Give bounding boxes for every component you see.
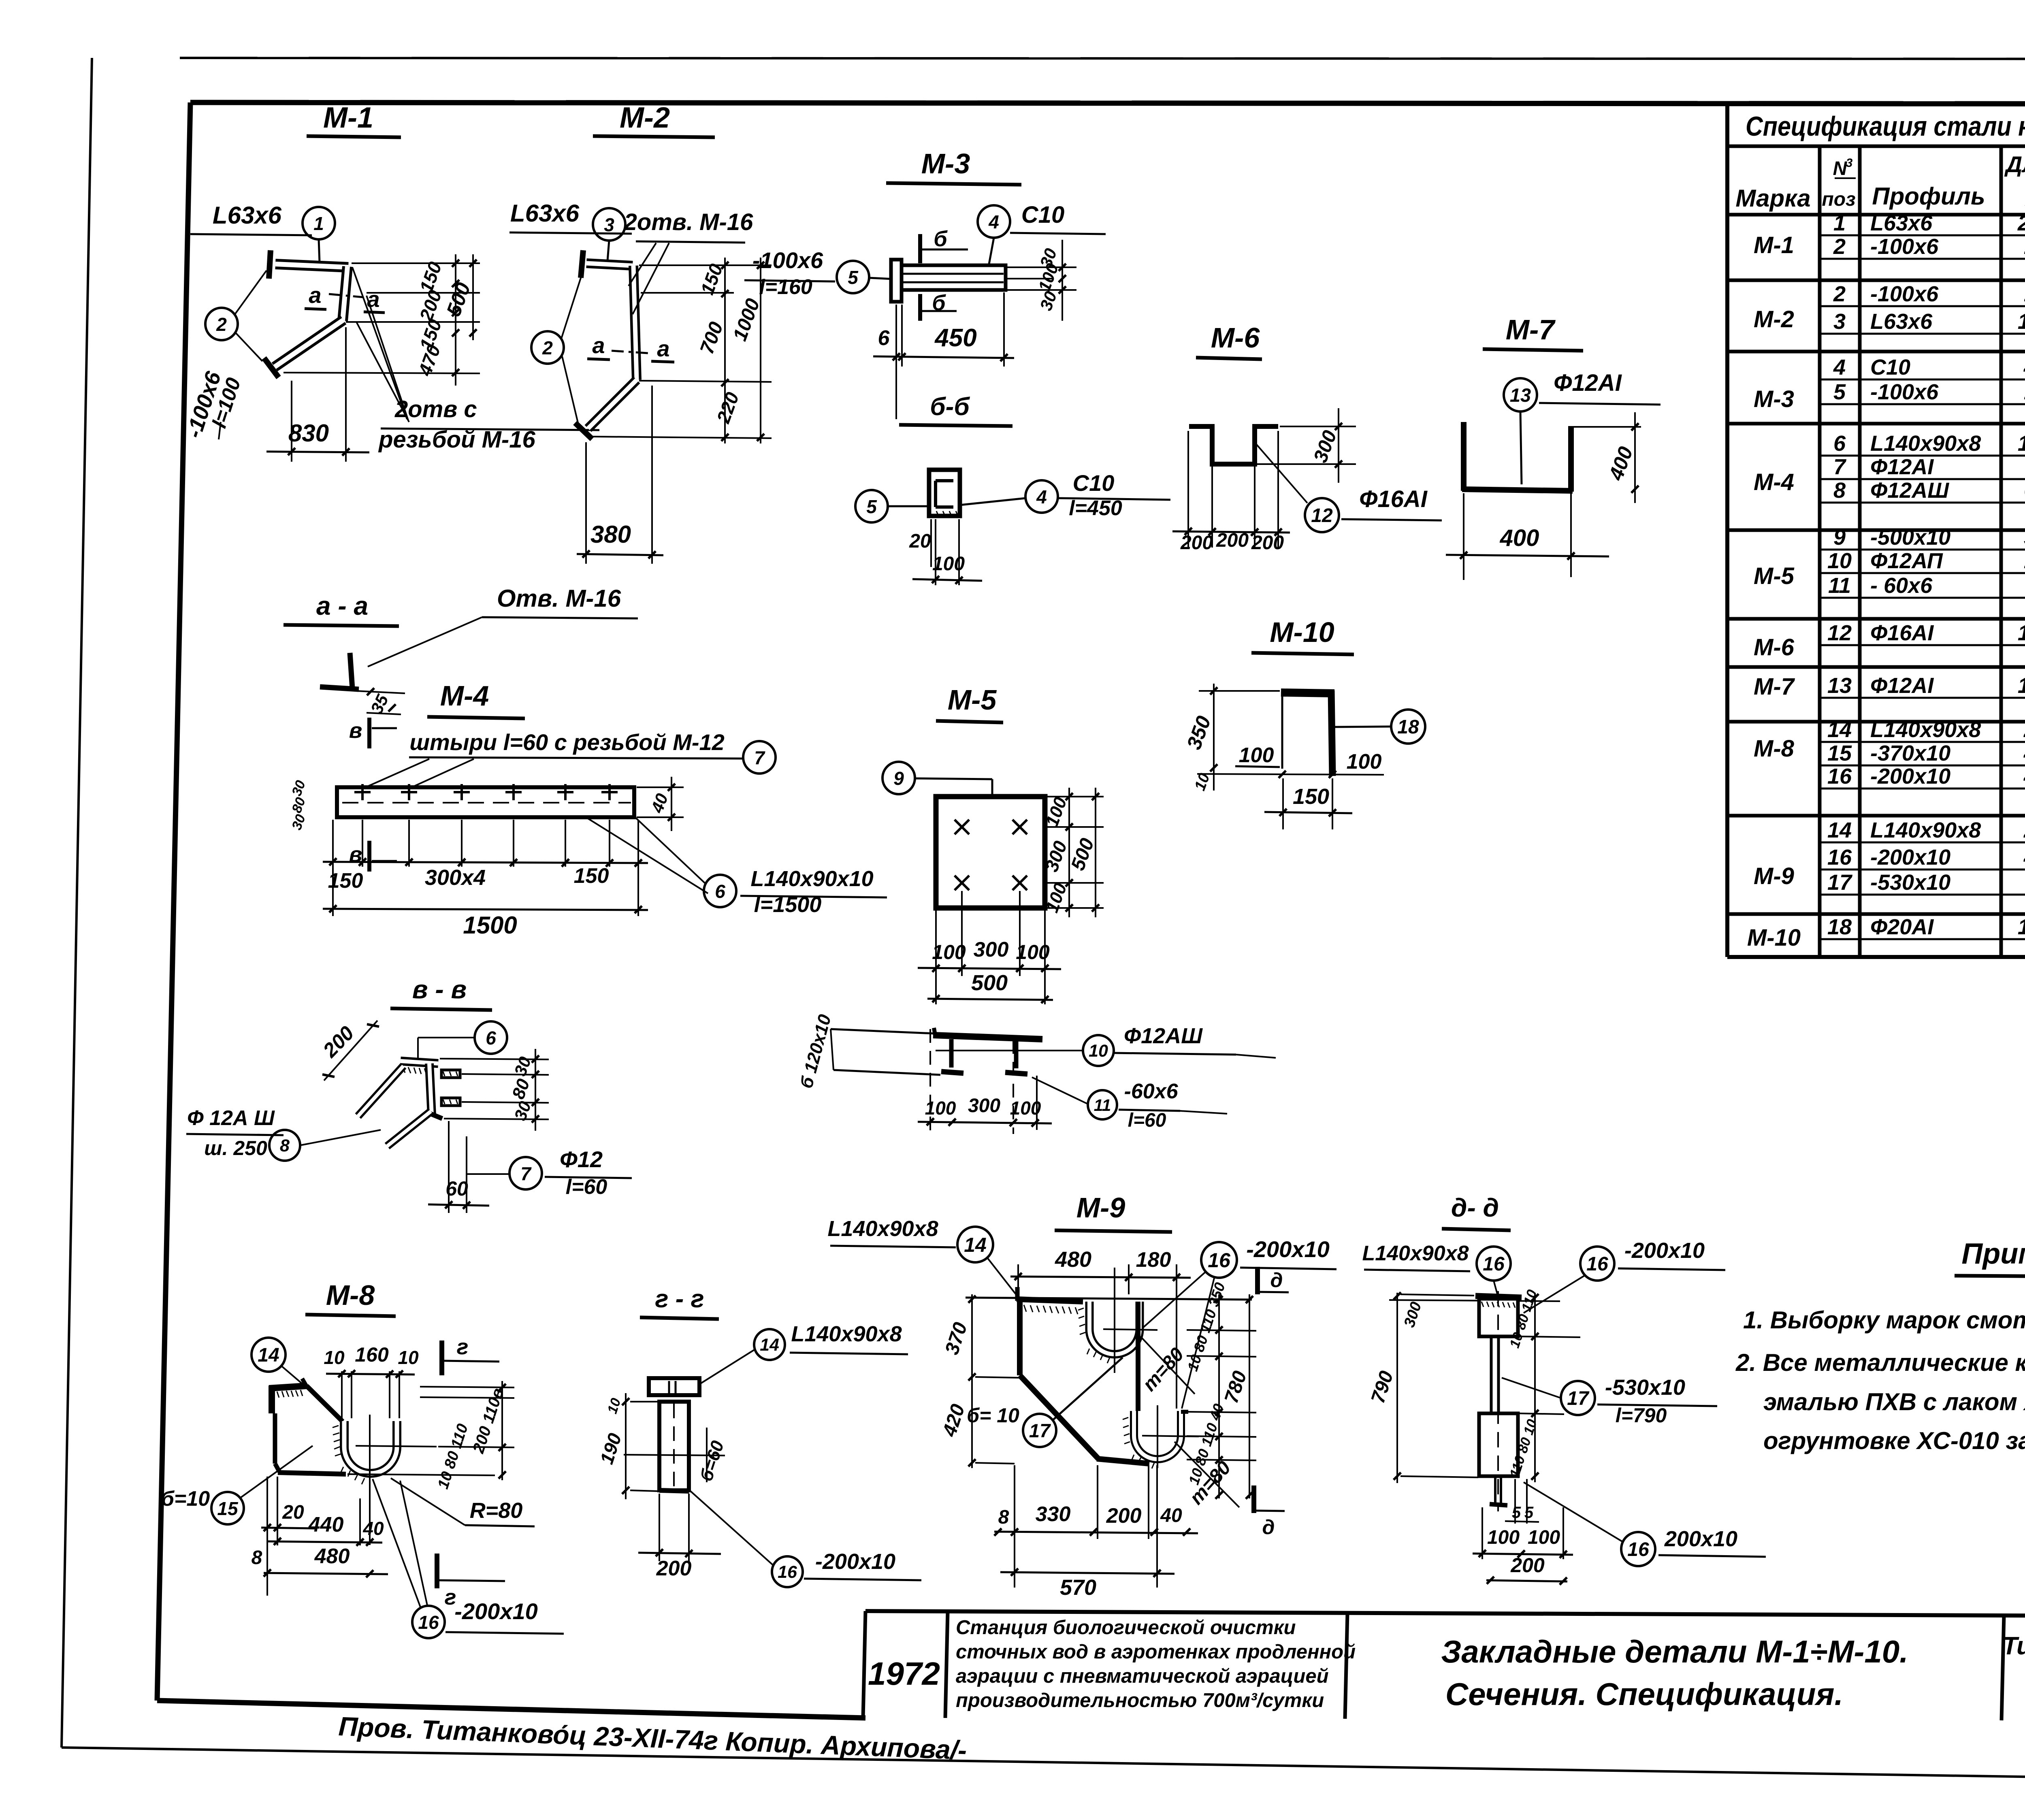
svg-text:1200: 1200 (2018, 673, 2025, 698)
svg-text:-100x6: -100x6 (752, 247, 823, 273)
svg-text:Ф16АI: Ф16АI (1870, 621, 1934, 645)
section g-g mid horizontal line (624, 1455, 725, 1456)
svg-text:a: a (657, 336, 669, 361)
svg-text:17: 17 (1567, 1388, 1590, 1409)
svg-text:8: 8 (998, 1507, 1009, 1528)
svg-text:7: 7 (754, 747, 765, 768)
section d-d bottom tab (1490, 1476, 1507, 1505)
section d-d left dimension 790 and 300 (1367, 1292, 1478, 1483)
outer sheet border thin top line (180, 58, 2025, 59)
svg-text:д: д (1270, 1269, 1283, 1291)
M-5 side view stud 1 (941, 1039, 963, 1073)
detail M-6 hat profile (1189, 426, 1278, 464)
svg-text:1972: 1972 (868, 1656, 940, 1692)
svg-text:б-б: б-б (930, 393, 970, 421)
svg-text:3: 3 (1846, 156, 1853, 170)
svg-text:в - в: в - в (412, 975, 467, 1004)
detail M-10 middle horizontal line with 100 100 (1197, 744, 1384, 778)
svg-text:l=60: l=60 (566, 1175, 607, 1199)
detail M-3 right dimension chain 30/100/30 (1007, 240, 1076, 321)
detail M-10 left dimension 350 and 10 (1182, 684, 1280, 793)
svg-text:Ф12АI: Ф12АI (1870, 673, 1934, 698)
svg-text:N: N (1833, 158, 1848, 179)
svg-text:аэрации с пневматической аэрац: аэрации с пневматической аэрацией (956, 1665, 1329, 1687)
svg-text:450: 450 (2023, 355, 2025, 379)
svg-text:Ф16АI: Ф16АI (1359, 486, 1428, 512)
svg-text:200: 200 (1216, 530, 1249, 551)
svg-text:-100x6: -100x6 (1870, 282, 1939, 306)
svg-text:L63x6: L63x6 (510, 200, 580, 227)
detail M-1 corner piece (343, 266, 347, 321)
svg-text:М-1: М-1 (1754, 232, 1794, 258)
section d-d bottom dims 5/5 (1505, 1479, 1539, 1524)
detail M-3 label -100x6 l=160 with circle 5 (744, 247, 893, 299)
detail M-8 top dimension 10/160/10 (324, 1343, 419, 1418)
section v-v dimension 60 below (428, 1121, 489, 1213)
section v-v leader circle 6 (418, 1021, 507, 1058)
svg-text:L63x6: L63x6 (213, 202, 282, 229)
svg-text:a: a (367, 286, 379, 312)
title block typovoi proekt (2002, 1632, 2025, 1709)
svg-text:15: 15 (217, 1498, 239, 1519)
svg-text:М-6: М-6 (1211, 322, 1260, 354)
detail M-9 part bottom edge (1097, 1459, 1149, 1464)
detail M-8 leader circle 14 (252, 1338, 304, 1385)
svg-text:380: 380 (590, 521, 631, 548)
table data group М-10 (1747, 915, 2025, 951)
svg-text:Ф12АI: Ф12АI (1870, 455, 1934, 479)
svg-text:60: 60 (446, 1177, 468, 1200)
detail M-4 section mark v bottom (349, 841, 397, 872)
svg-text:Ф12АП: Ф12АП (1870, 549, 1943, 573)
svg-text:6: 6 (1833, 431, 1846, 456)
svg-text:a: a (592, 332, 605, 358)
svg-text:- 60x6: - 60x6 (1870, 573, 1933, 598)
detail M-9 hatch under top edge (1024, 1305, 1078, 1314)
svg-text:500: 500 (971, 971, 1008, 995)
svg-text:1500: 1500 (463, 912, 517, 939)
svg-text:5: 5 (1512, 1504, 1521, 1522)
detail M-3 dimension 450 and 6 (873, 292, 1014, 419)
section a-a title (283, 591, 399, 626)
svg-text:480: 480 (2023, 845, 2025, 870)
svg-text:Ф12АI: Ф12АI (1554, 370, 1622, 396)
detail M-9 left dimension 370/420 (938, 1294, 1021, 1468)
M-5 side view stud 2 (1005, 1040, 1027, 1074)
svg-text:2270: 2270 (2017, 211, 2025, 235)
svg-text:7: 7 (520, 1163, 532, 1184)
svg-text:-200x10: -200x10 (1246, 1236, 1330, 1262)
svg-text:Ф 12А Ш: Ф 12А Ш (187, 1106, 275, 1130)
detail M-3 section mark b bottom (920, 291, 957, 321)
detail M-7 U channel profile (1462, 422, 1573, 492)
svg-text:С10: С10 (1870, 355, 1910, 379)
section d-d leader circle 17 and label -530x10 l=790 (1502, 1375, 1717, 1427)
svg-text:440: 440 (308, 1513, 344, 1537)
svg-text:4: 4 (1036, 486, 1047, 507)
svg-text:12: 12 (1311, 505, 1333, 526)
svg-text:1500: 1500 (2018, 431, 2025, 456)
svg-text:8: 8 (252, 1547, 262, 1569)
svg-text:1060: 1060 (2018, 915, 2025, 939)
detail M-8 hatch along U (333, 1426, 364, 1484)
detail M-8 bottom dimension chains 20/440/40/8/480 (252, 1477, 388, 1596)
detail M-9 U centerlines (1103, 1268, 1199, 1468)
section d-d bottom dims 100/100 (1473, 1507, 1573, 1559)
detail M-8 hatch under angle (277, 1390, 303, 1398)
svg-text:-200x10: -200x10 (1870, 764, 1950, 789)
svg-text:г - г: г - г (655, 1285, 704, 1313)
svg-text:l=160: l=160 (759, 275, 812, 299)
svg-text:б= 10: б= 10 (967, 1404, 1019, 1427)
svg-text:Отв. М-16: Отв. М-16 (497, 585, 621, 612)
svg-text:14: 14 (760, 1335, 779, 1355)
section v-v leader circle 7 and label F12 l=60 (467, 1147, 632, 1199)
svg-text:300: 300 (974, 938, 1009, 961)
svg-text:эмалью ПХВ с лаком ХСП /Ш/: эмалью ПХВ с лаком ХСП /Ш/ за 2раза по (1763, 1388, 2025, 1415)
detail M-2 section mark a left (587, 332, 610, 360)
svg-text:100: 100 (1347, 750, 1382, 774)
detail M-1 leader circle 1 (303, 207, 335, 262)
svg-text:огрунтовке ХС-010 за 2раза: огрунтовке ХС-010 за 2раза. (1763, 1427, 2025, 1454)
svg-text:4: 4 (1833, 355, 1846, 379)
svg-text:11: 11 (1094, 1096, 1111, 1115)
svg-text:3: 3 (604, 214, 614, 235)
svg-text:4: 4 (988, 211, 999, 232)
detail M-5 title (936, 684, 1003, 722)
svg-text:14: 14 (1827, 718, 1852, 742)
svg-text:Ф12АШ: Ф12АШ (1870, 478, 1949, 503)
svg-text:5: 5 (1833, 380, 1846, 404)
svg-text:16: 16 (1827, 845, 1852, 870)
svg-text:ш. 250: ш. 250 (204, 1137, 267, 1159)
detail M-1 rotated label -100x6 l=100 (181, 368, 245, 441)
svg-text:М-6: М-6 (1754, 634, 1795, 661)
detail M-6 dimension line 200x3 (1172, 528, 1290, 554)
detail M-1 dimension 830 (266, 327, 369, 462)
detail M-2 leader circle 3 (593, 208, 625, 261)
section g-g leader circle 16 and label -200x10 (691, 1491, 921, 1587)
M-5 side view rotated label 120x10 (796, 1012, 835, 1090)
svg-text:480: 480 (1055, 1247, 1091, 1272)
detail M-1 right dimension chain 150/200/150/470/500 (283, 254, 480, 386)
detail M-8 right rotated dims (435, 1381, 507, 1491)
svg-text:в: в (349, 718, 362, 743)
svg-text:8: 8 (280, 1136, 290, 1155)
section d-d leader circle 16 right and label -200x10 (1524, 1238, 1725, 1313)
svg-text:М-5: М-5 (948, 684, 997, 716)
section g-g web plate (659, 1402, 689, 1491)
outer sheet border thin bottom line (62, 1748, 2025, 1783)
specification table grid (1727, 104, 2025, 957)
svg-text:200: 200 (656, 1557, 692, 1580)
section d-d center dashed line (1497, 1291, 1499, 1511)
svg-text:300: 300 (968, 1095, 1000, 1117)
svg-text:L140x90x8: L140x90x8 (1870, 818, 1981, 842)
svg-text:сточных вод в аэротенках продл: сточных вод в аэротенках продленной (956, 1641, 1356, 1663)
M-5 side view leader circle 10 and label F12AIII (936, 1024, 1276, 1066)
section d-d top flange angle (1475, 1296, 1522, 1298)
svg-text:Сечения. Спецификация.: Сечения. Спецификация. (1445, 1676, 1843, 1712)
detail M-1 diagonal bar (275, 320, 343, 367)
detail M-4 leader circle 6 and label L140x90x10 l=1500 (587, 816, 887, 917)
svg-text:5: 5 (866, 496, 877, 517)
svg-text:l=60: l=60 (1128, 1110, 1166, 1131)
table data group М-6 (1727, 621, 2025, 667)
detail M-7 right dimension 400 (1571, 412, 1641, 577)
table data group М-1 (1727, 211, 2025, 280)
svg-text:15: 15 (1827, 741, 1852, 765)
svg-text:-200x10: -200x10 (1624, 1238, 1705, 1263)
table data group М-5 (1727, 525, 2025, 619)
section g-g title (640, 1285, 719, 1319)
svg-text:С10: С10 (1073, 470, 1115, 496)
svg-text:1200: 1200 (2018, 621, 2025, 645)
svg-text:3: 3 (1833, 309, 1846, 334)
detail M-1 leader circle 2 (205, 271, 266, 361)
notes title (1955, 1238, 2025, 1277)
svg-text:Типовой проект: Типовой проект (2002, 1632, 2025, 1660)
detail M-2 vertical bar (633, 266, 637, 380)
detail M-9 lower U hook pos.16 (1134, 1411, 1188, 1459)
detail M-10 title (1251, 616, 1354, 654)
svg-text:l=450: l=450 (1069, 497, 1122, 520)
svg-text:2: 2 (216, 314, 227, 335)
svg-text:L140x90x8: L140x90x8 (791, 1322, 902, 1346)
detail M-6 extension lines (1188, 431, 1278, 548)
detail M-6 title (1196, 322, 1262, 359)
svg-text:14: 14 (1827, 818, 1852, 842)
svg-text:18: 18 (1397, 716, 1419, 738)
section a-a label Отв. М-16 (368, 585, 638, 667)
svg-text:200: 200 (1510, 1554, 1545, 1577)
svg-text:200: 200 (2023, 718, 2025, 742)
section g-g right dimension b=60 (696, 1428, 728, 1484)
svg-text:С10: С10 (1021, 202, 1064, 228)
svg-text:-100x6: -100x6 (1870, 234, 1939, 259)
section v-v title (390, 975, 492, 1010)
detail M-8 U bolt pos.16 (344, 1421, 397, 1473)
svg-text:М-7: М-7 (1506, 314, 1556, 345)
detail M-8 section mark g bottom (437, 1554, 505, 1609)
table data group М-4 (1727, 431, 2025, 530)
detail M-9 radius note t=80 lower (1174, 1442, 1239, 1509)
section d-d upper plate (1479, 1299, 1518, 1336)
svg-text:1. Выборку марок смотри на: 1. Выборку марок смотри на листе АС-2. (1743, 1306, 2025, 1334)
svg-text:180: 180 (1136, 1248, 1171, 1272)
inner frame thick bottom edge (157, 1701, 865, 1718)
title block drawing name line 2 (1445, 1676, 1843, 1712)
detail M-9 bottom dimension chains 8/330/200/40/570 (994, 1465, 1198, 1600)
svg-text:12: 12 (1827, 621, 1852, 645)
svg-text:6: 6 (486, 1027, 496, 1049)
svg-text:160: 160 (355, 1343, 389, 1366)
svg-text:L63x6: L63x6 (1870, 211, 1933, 235)
svg-text:1820: 1820 (2018, 309, 2025, 334)
detail M-6 leader circle 12 and label F16AI (1254, 441, 1442, 532)
section b-b leader circle 5 (855, 490, 929, 522)
section v-v angle top flange (401, 1061, 438, 1063)
svg-text:480: 480 (314, 1545, 350, 1568)
svg-text:13: 13 (1510, 384, 1531, 406)
section g-g left dimension 190 (596, 1393, 658, 1499)
svg-text:5: 5 (848, 267, 859, 288)
svg-text:М-4: М-4 (1754, 469, 1794, 495)
svg-text:11: 11 (1828, 573, 1851, 598)
detail M-5 right dimension chain 100/300/100/500 (1040, 788, 1104, 917)
detail M-2 title (593, 102, 715, 137)
svg-text:a: a (309, 282, 321, 308)
svg-text:2. Все металлические констру: 2. Все металлические конструкции покрыть (1735, 1349, 2025, 1376)
section v-v diagonal dimension 200 (318, 1021, 379, 1080)
detail M-3 section mark b top (920, 227, 968, 263)
svg-text:М-8: М-8 (1754, 735, 1795, 762)
section v-v lower diagonal bar pos.8 (387, 1111, 431, 1146)
title block object description (956, 1617, 1356, 1711)
table header cell labels (1735, 146, 2025, 212)
detail M-5 four stud marks pos.10 (955, 820, 1027, 890)
svg-text:-370x10: -370x10 (1870, 741, 1950, 765)
svg-text:200: 200 (1251, 532, 1284, 554)
svg-text:480: 480 (2023, 764, 2025, 789)
detail M-1 title (307, 102, 401, 137)
detail M-2 right dimension chain 150/700/220/1000 (592, 258, 772, 443)
detail M-8 centerlines (356, 1415, 437, 1545)
table data group М-3 (1727, 355, 2025, 424)
detail M-9 label L140x90x8 and leader circle 14 (827, 1217, 1017, 1295)
svg-text:б: б (934, 227, 948, 251)
section d-d label L140x90x8 and leader circle 16 left (1362, 1242, 1511, 1298)
detail M-4 section mark v top (349, 718, 397, 748)
svg-text:5: 5 (1524, 1504, 1534, 1522)
svg-text:штыри l=60 с резьбой М-12: штыри l=60 с резьбой М-12 (409, 729, 725, 755)
section v-v upper diagonal bar pos.8 (358, 1066, 403, 1116)
detail M-1 leader note 2 holes M-16 (352, 267, 599, 453)
svg-text:-200x10: -200x10 (1870, 845, 1950, 870)
section b-b title (899, 393, 1013, 426)
svg-text:L140x90x8: L140x90x8 (827, 1217, 938, 1241)
table header title text (1746, 111, 2025, 142)
svg-text:14: 14 (964, 1234, 987, 1256)
svg-text:40: 40 (362, 1518, 384, 1539)
svg-text:Ф12: Ф12 (560, 1147, 603, 1172)
detail M-9 radius note t=80 upper (1138, 1336, 1195, 1395)
section d-d top extension line (1389, 1300, 1560, 1301)
detail M-4 plate (337, 787, 634, 817)
detail M-1 label L63x6 pos.1 (190, 202, 312, 235)
svg-text:-530x10: -530x10 (1870, 870, 1950, 895)
M-5 side view leader circle 11 and label -60x6 l=60 (1032, 1077, 1227, 1131)
M-5 side view thick plate pos.9 (933, 1028, 1042, 1039)
section a-a dimension 35 (356, 688, 405, 717)
svg-text:a - a: a - a (316, 591, 368, 620)
svg-text:150: 150 (1293, 784, 1329, 809)
svg-text:Ф12АШ: Ф12АШ (1124, 1024, 1203, 1048)
detail M-9 part top edge (1017, 1287, 1083, 1302)
svg-text:1: 1 (313, 213, 324, 234)
svg-text:100: 100 (932, 941, 966, 963)
detail M-10 left extension (1281, 692, 1283, 769)
svg-text:100: 100 (925, 1098, 956, 1119)
note 3 (1763, 1388, 2025, 1415)
svg-text:-200x10: -200x10 (454, 1598, 538, 1624)
svg-text:6: 6 (715, 881, 725, 902)
svg-text:8: 8 (1833, 478, 1846, 503)
detail M-8 plate outline pos.15 (275, 1386, 346, 1474)
detail M-10 bottom dimension 150 (1264, 778, 1352, 829)
title block year 1972 (868, 1656, 940, 1692)
detail M-2 diagonal bar (588, 380, 637, 428)
M-5 side view dimension 100/300/100 (918, 1095, 1052, 1127)
svg-text:2отв. М-16: 2отв. М-16 (624, 209, 753, 235)
svg-text:2: 2 (1833, 282, 1846, 306)
title block grid (863, 1611, 2025, 1721)
section b-b channel section piece (929, 470, 960, 516)
svg-text:14: 14 (258, 1345, 279, 1366)
svg-text:16: 16 (1627, 1539, 1649, 1560)
svg-text:150: 150 (574, 864, 609, 888)
svg-text:400: 400 (1500, 525, 1539, 551)
bottom handwritten check note (338, 1711, 967, 1765)
detail M-7 leader circle 13 and label F12AI (1504, 370, 1660, 484)
detail M-1 bottom end plate pos.2 (264, 358, 279, 377)
inner frame thick left edge (157, 102, 190, 1701)
detail M-8 label R=80 (391, 1478, 535, 1526)
svg-text:6: 6 (878, 326, 890, 350)
svg-text:16: 16 (418, 1612, 439, 1633)
svg-text:М-1: М-1 (323, 102, 373, 134)
svg-text:L140х90х8: L140х90х8 (1362, 1242, 1469, 1265)
svg-text:-200x10: -200x10 (815, 1549, 895, 1574)
M-5 side view dashed extensions (930, 1029, 1037, 1134)
svg-text:100: 100 (1528, 1527, 1560, 1548)
note 1 (1743, 1306, 2025, 1334)
section b-b dimensions 20 and 100 (909, 519, 982, 585)
detail M-9 top extension line (966, 1298, 1252, 1300)
svg-text:Закладные детали М-1÷М-10.: Закладные детали М-1÷М-10. (1441, 1634, 1908, 1669)
svg-text:l=790: l=790 (1616, 1404, 1667, 1427)
detail M-9 leader circle 16 top and label -200x10 (1141, 1236, 1336, 1409)
svg-text:10: 10 (1827, 549, 1852, 573)
detail M-9 section mark d bottom (1254, 1485, 1285, 1539)
detail M-5 square plate (936, 797, 1045, 908)
svg-text:Профиль: Профиль (1872, 183, 1985, 210)
note 4 (1763, 1427, 2025, 1454)
svg-text:200х10: 200х10 (1664, 1527, 1737, 1551)
svg-text:М-2: М-2 (1754, 306, 1794, 332)
section d-d right dimension column (1507, 1288, 1580, 1482)
svg-text:150: 150 (328, 869, 363, 893)
section g-g leader circle 14 and label L140x90x8 (701, 1322, 908, 1383)
detail M-9 section mark d top (1258, 1267, 1289, 1294)
svg-text:Длина: Длина (2004, 151, 2025, 177)
section v-v right dimension chain 30/80/30 (440, 1049, 549, 1131)
svg-text:г: г (457, 1335, 469, 1359)
table data group М-9 (1727, 818, 2025, 914)
svg-text:10: 10 (324, 1347, 345, 1368)
svg-text:200: 200 (1180, 532, 1213, 554)
detail M-1 section mark a right (364, 286, 385, 313)
title block drawing name line 1 (1441, 1634, 1908, 1669)
detail M-9 part diagonal edge (1020, 1375, 1098, 1459)
detail M-2 angle profile top bar (586, 263, 633, 266)
detail M-7 bottom dimension 400 (1446, 493, 1609, 580)
svg-text:М-9: М-9 (1754, 863, 1794, 889)
section v-v angle vertical leg (428, 1063, 442, 1119)
svg-text:-530x10: -530x10 (1605, 1375, 1685, 1400)
detail M-2 dimension 380 (577, 386, 663, 564)
detail M-4 bottom dimension chains 150/300x4/150/1500 (323, 820, 648, 939)
